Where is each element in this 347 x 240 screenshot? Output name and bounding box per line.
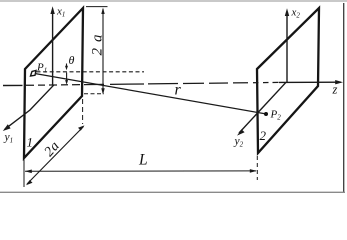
svg-text:2: 2 <box>260 128 267 143</box>
axis y1 <box>5 85 55 130</box>
svg-text:L: L <box>138 151 148 168</box>
theta arrow lower <box>66 73 68 82</box>
aperture square P1 <box>31 71 37 77</box>
axis x1 <box>52 11 54 85</box>
svg-text:θ: θ <box>69 53 75 67</box>
line r from P1 to P2 <box>36 74 266 114</box>
axis z : solid left stub <box>3 84 23 86</box>
dashed ray from P1 (parallel to z) <box>37 71 145 73</box>
plane 2 (right observation plane) <box>257 8 319 153</box>
point P2 <box>264 112 268 116</box>
svg-text:z: z <box>332 83 338 97</box>
svg-text:r: r <box>175 82 182 99</box>
theta arrow upper <box>66 64 68 68</box>
axis z : solid right segment with arrow <box>279 81 341 83</box>
dim L : left extension line <box>23 159 25 188</box>
axis z : dashed center line <box>26 82 279 85</box>
dim L : right extension dashes <box>256 156 258 180</box>
top scan band <box>0 0 347 2</box>
plane 1 (left aperture plane) <box>24 8 83 158</box>
bottom border <box>0 191 345 193</box>
svg-text:1: 1 <box>27 135 34 150</box>
right border <box>343 3 345 193</box>
dim 2a vertical : bottom extension dashes <box>84 93 104 95</box>
svg-text:2a: 2a <box>90 29 106 56</box>
dim 2a vertical line <box>102 9 104 93</box>
extension below plane1 BR corner <box>82 99 84 124</box>
axis y2 <box>239 82 286 133</box>
dim 2a slanted (plane depth) <box>27 127 84 185</box>
dim 2a vertical : top extension tick <box>86 6 108 8</box>
dim L line <box>25 170 256 172</box>
axis x2 <box>286 13 288 82</box>
